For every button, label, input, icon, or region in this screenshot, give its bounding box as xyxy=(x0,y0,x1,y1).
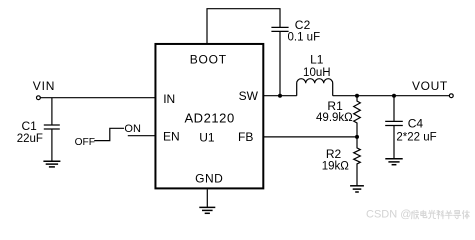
svg-text:EN: EN xyxy=(163,129,180,143)
svg-text:FB: FB xyxy=(238,130,253,144)
svg-text:AD2120: AD2120 xyxy=(184,111,234,126)
node VIN terminal xyxy=(37,96,41,100)
wire C4 to ground xyxy=(393,126,395,159)
ground (IC GND) xyxy=(199,207,215,213)
resistor R2 xyxy=(354,137,361,186)
node R1 junction xyxy=(355,94,359,98)
node SW/C2 junction xyxy=(278,94,282,98)
svg-text:C2: C2 xyxy=(295,18,311,32)
resistor R1 xyxy=(354,96,361,137)
svg-text:2*22 uF: 2*22 uF xyxy=(396,131,436,143)
wire BOOT loop (IC top to C2 top) xyxy=(207,9,280,43)
capacitor C4 xyxy=(385,121,403,125)
svg-text:GND: GND xyxy=(195,171,223,185)
op-amp U1 : AD2120 regulator body xyxy=(155,44,263,188)
node FB junction xyxy=(355,135,359,139)
wire EN xyxy=(128,135,155,137)
wire VIN to IN pin xyxy=(40,97,154,99)
svg-text:19kΩ: 19kΩ xyxy=(322,161,350,173)
svg-text:CSDN @: CSDN @ xyxy=(366,209,411,221)
svg-text:VOUT: VOUT xyxy=(412,79,448,93)
inductor L1 xyxy=(297,79,333,96)
switch throw wire xyxy=(94,128,124,140)
ground (R2) xyxy=(350,186,364,192)
svg-text:U1: U1 xyxy=(199,130,215,144)
capacitor C1 xyxy=(44,125,60,129)
svg-text:R2: R2 xyxy=(326,147,342,161)
wire C2 bottom to SW rail xyxy=(279,32,281,96)
wire L1 to VOUT xyxy=(333,95,450,97)
wire GND pin to ground xyxy=(206,190,208,208)
svg-text:22uF: 22uF xyxy=(17,133,43,145)
ground (C4) xyxy=(385,159,402,165)
svg-text:R1: R1 xyxy=(327,99,343,113)
capacitor C2 xyxy=(271,27,288,31)
watermark hanzi 微电光科半导体 (vector) xyxy=(411,210,469,219)
svg-text:0.1 uF: 0.1 uF xyxy=(288,32,321,44)
ground (C1) xyxy=(43,161,60,167)
wire C1 branch xyxy=(51,98,53,125)
svg-text:10uH: 10uH xyxy=(303,67,331,79)
wire C1 to ground xyxy=(51,129,53,161)
svg-text:IN: IN xyxy=(163,92,175,106)
svg-text:BOOT: BOOT xyxy=(190,52,227,66)
svg-text:ON: ON xyxy=(124,123,141,135)
node C4 junction xyxy=(392,94,396,98)
svg-text:OFF: OFF xyxy=(75,137,95,148)
svg-text:L1: L1 xyxy=(310,52,324,66)
svg-text:C4: C4 xyxy=(408,117,424,131)
svg-text:49.9kΩ: 49.9kΩ xyxy=(316,112,353,124)
wire FB to divider xyxy=(264,136,358,138)
wire C4 branch xyxy=(393,96,395,121)
svg-text:SW: SW xyxy=(239,89,259,103)
svg-text:C1: C1 xyxy=(22,119,38,133)
wire SW to inductor xyxy=(264,95,297,97)
svg-text:VIN: VIN xyxy=(33,79,55,93)
node VOUT terminal xyxy=(449,94,453,98)
